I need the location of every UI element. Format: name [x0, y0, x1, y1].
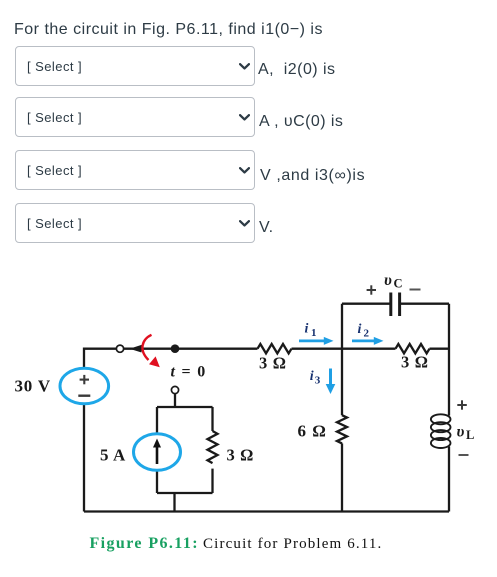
svg-text:3 Ω: 3 Ω — [259, 353, 287, 372]
capacitor plus sign — [367, 285, 376, 294]
wire capacitor branch left — [342, 303, 390, 305]
svg-text:6 Ω: 6 Ω — [298, 422, 327, 441]
svg-text:1: 1 — [311, 327, 317, 339]
wire middle rail upper — [341, 304, 343, 416]
resistor 3ohm in box vertical — [208, 431, 218, 463]
voltage source V1 circle — [60, 368, 109, 404]
current arrow i1 — [299, 337, 334, 345]
wire R1 to R2 — [292, 348, 396, 350]
node dot junction — [171, 344, 180, 353]
switch blade arrowhead — [130, 345, 142, 353]
switch open contact circle — [116, 345, 123, 352]
capacitor minus sign — [410, 289, 421, 291]
wire right rail upper — [448, 304, 450, 416]
wire box left upper — [156, 407, 158, 434]
switch action red arc arrow — [142, 335, 151, 360]
svg-text:i: i — [358, 322, 362, 337]
svg-text:υ: υ — [384, 272, 392, 289]
wire middle rail lower — [341, 443, 343, 511]
wire R2 to right rail — [430, 348, 450, 350]
current source I1 circle — [134, 434, 181, 471]
svg-text:C: C — [394, 276, 403, 290]
wire current-source box top — [157, 406, 213, 408]
voltage source plus sign — [80, 375, 89, 384]
voltage source minus sign — [78, 395, 90, 397]
resistor R2 3ohm horizontal — [396, 344, 430, 353]
wire switch lower terminal stub — [174, 394, 176, 407]
resistor 6ohm vertical — [337, 415, 347, 443]
wire box right upper — [211, 407, 213, 431]
svg-text:Figure P6.11:: Figure P6.11: — [90, 535, 199, 552]
svg-text:L: L — [466, 428, 474, 442]
svg-text:5 A: 5 A — [100, 446, 126, 465]
wire top-left from source to switch — [84, 349, 116, 369]
inductor plus sign — [457, 400, 467, 409]
svg-text:3 Ω: 3 Ω — [227, 446, 254, 465]
current source arrow — [156, 445, 159, 464]
wire box bottom — [157, 492, 213, 494]
figure caption — [90, 535, 383, 552]
wire switch blade to node and on to R1 — [124, 348, 258, 350]
svg-text:υ: υ — [457, 423, 465, 440]
wire left rail below source — [83, 404, 85, 512]
resistor R1 3ohm horizontal — [258, 344, 292, 353]
wire box stub to bottom rail — [173, 493, 175, 512]
current arrow i2 — [352, 337, 384, 345]
capacitor C plates — [391, 293, 400, 317]
wire capacitor branch right — [401, 303, 450, 305]
wire box left lower — [156, 470, 158, 493]
inductor minus sign — [459, 454, 469, 456]
wire box right lower — [211, 469, 213, 493]
inductor L coil — [431, 414, 451, 448]
current arrow i3 — [326, 369, 336, 395]
svg-text:Circuit for Problem 6.11.: Circuit for Problem 6.11. — [203, 536, 382, 552]
svg-text:3: 3 — [315, 375, 321, 387]
wire right rail lower — [448, 447, 450, 512]
svg-text:i: i — [305, 322, 309, 337]
svg-text:3 Ω: 3 Ω — [401, 352, 429, 371]
switch lower contact circle — [171, 386, 178, 393]
svg-text:t = 0: t = 0 — [171, 364, 207, 381]
wire bottom rail — [84, 510, 449, 512]
svg-text:2: 2 — [364, 328, 370, 340]
svg-text:30 V: 30 V — [15, 377, 51, 396]
svg-text:i: i — [310, 369, 314, 384]
